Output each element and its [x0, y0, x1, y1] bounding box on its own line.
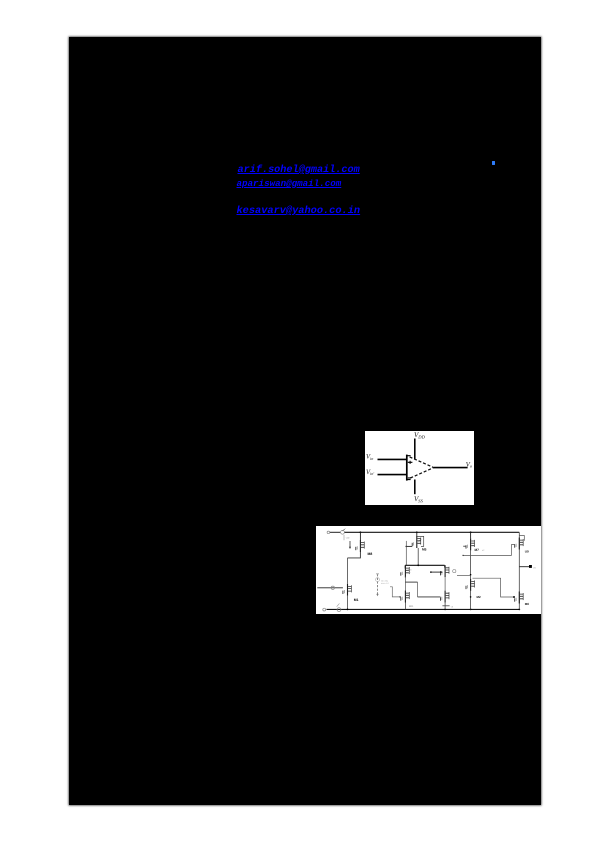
vdd input port circle	[327, 531, 330, 534]
minus input mark	[408, 477, 412, 479]
vdd voltage source V1	[341, 530, 345, 534]
svg-text:M8: M8	[368, 552, 373, 556]
figure: op-amp symbol white box	[365, 431, 474, 505]
gate wire M10 to M6	[473, 578, 515, 597]
VSS supply wire	[414, 480, 416, 495]
transistor M7	[470, 532, 472, 538]
svg-text:Vin': Vin'	[366, 469, 374, 476]
svg-text:M3: M3	[408, 569, 412, 572]
email link 2	[237, 178, 342, 189]
transistor M1	[343, 584, 352, 596]
vss port circle	[323, 608, 326, 611]
gate line of M2	[418, 596, 441, 598]
svg-text:vdd!: vdd!	[346, 536, 350, 539]
svg-text:Vin: Vin	[366, 454, 373, 461]
svg-text:M2: M2	[477, 595, 481, 599]
svg-text:M6: M6	[525, 602, 529, 606]
transistor M2	[441, 591, 450, 603]
wire V- input	[378, 474, 407, 476]
transistor M11	[401, 591, 410, 603]
svg-text:M11: M11	[409, 605, 414, 608]
diode stub M3	[405, 581, 417, 583]
input port vin	[317, 587, 343, 589]
wire V+ input	[378, 458, 407, 460]
svg-text:vo: vo	[533, 567, 536, 570]
M9 gate wire	[463, 545, 515, 556]
wire M8 source to M1 drain	[348, 552, 361, 558]
svg-text:v5: v5	[451, 605, 454, 608]
svg-text:acm=1.0: acm=1.0	[381, 582, 390, 585]
stub wire	[457, 574, 471, 576]
output port square	[529, 565, 532, 568]
email link 1	[238, 165, 360, 176]
svg-text:M7: M7	[475, 548, 480, 552]
transistor M8	[359, 532, 361, 540]
plus input mark	[408, 461, 413, 464]
transistor M5 (diode connected)	[416, 532, 418, 536]
transistor M3	[401, 566, 410, 578]
svg-text:U9: U9	[525, 549, 529, 553]
svg-text:VSS: VSS	[414, 495, 424, 503]
email link 3	[237, 205, 361, 217]
figure: CMOS op-amp schematic white box	[316, 526, 541, 614]
svg-text:VDD: VDD	[414, 431, 426, 439]
current source I1	[377, 574, 379, 595]
transistor M4	[441, 565, 450, 577]
gate arrow into M4	[431, 571, 441, 573]
node dots on VSS rail	[347, 609, 349, 611]
wire M5 source down	[417, 548, 419, 565]
output wire	[519, 566, 529, 568]
svg-text:x2: x2	[482, 549, 485, 552]
corner wire to M11 gate	[390, 587, 401, 597]
wire M1 drain	[347, 558, 349, 584]
small blue superscript mark	[492, 161, 495, 165]
transistor M10	[466, 579, 475, 591]
svg-text:ab: ab	[408, 571, 411, 574]
wire port to source	[330, 531, 340, 533]
VDD supply wire	[414, 439, 416, 460]
VDD rail (top)	[345, 531, 520, 533]
node dots on VDD rail	[360, 531, 362, 533]
transistor M6	[515, 592, 524, 604]
transistor M9	[515, 538, 524, 550]
document page background	[69, 37, 541, 805]
bias arrow at M8	[349, 541, 351, 547]
svg-text:Vo: Vo	[466, 461, 472, 468]
svg-text:M1: M1	[354, 598, 359, 602]
vss source V2	[337, 608, 341, 612]
mirror row wire	[405, 564, 445, 566]
wire output	[434, 467, 468, 469]
VSS rail (bottom)	[327, 608, 520, 610]
svg-text:M5: M5	[422, 548, 427, 552]
op-amp triangle U1	[406, 455, 408, 481]
right branch wire	[518, 532, 520, 609]
svg-text:idc=20u: idc=20u	[381, 579, 388, 582]
